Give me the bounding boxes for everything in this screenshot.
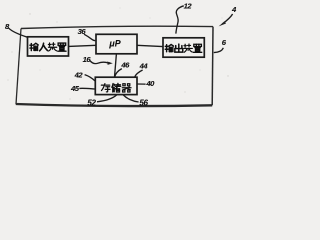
leader 16 with arrowhead [90, 60, 110, 63]
text 输出装置 [165, 44, 201, 52]
leader 44 [135, 70, 143, 77]
wire uP->memory [115, 54, 117, 77]
leader 8 [9, 28, 28, 37]
svg-text:12: 12 [184, 1, 193, 10]
svg-text:46: 46 [120, 61, 130, 70]
leader 52 [97, 95, 117, 102]
microprocessor box U (μP) [96, 34, 137, 54]
leader 45 [79, 87, 94, 90]
memory box (存储器) [95, 77, 137, 94]
svg-text:16: 16 [83, 55, 92, 64]
leader 12 [176, 6, 184, 34]
leader 42 [85, 75, 95, 81]
leader 40 [138, 83, 146, 85]
svg-text:45: 45 [70, 84, 80, 93]
leader 4 with arrowhead [222, 14, 232, 24]
output device box (输出装置) [163, 38, 204, 57]
text 存储器 [101, 83, 131, 92]
leader 6 [214, 48, 224, 53]
svg-text:52: 52 [87, 99, 96, 108]
svg-text:μP: μP [108, 39, 120, 49]
input device box (输入装置) [28, 37, 69, 56]
text 输入装置 [30, 43, 66, 51]
svg-text:56: 56 [139, 99, 148, 108]
wire input->uP [69, 45, 97, 46]
svg-text:44: 44 [139, 62, 149, 71]
enclosure box (system boundary), label 4 [16, 26, 213, 106]
leader 36 [84, 34, 95, 41]
leader 46 [115, 69, 122, 77]
svg-text:40: 40 [145, 79, 155, 88]
leader 56 [123, 95, 138, 102]
wire uP->output [137, 45, 163, 46]
svg-text:42: 42 [74, 71, 84, 80]
